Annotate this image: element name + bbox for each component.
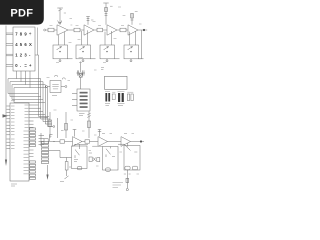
svg-text:0: 0 <box>15 63 18 68</box>
op-amp U2B <box>128 25 138 35</box>
battery B1 stack <box>39 133 45 146</box>
wire: left loop L2 <box>10 82 41 97</box>
svg-text:1: 1 <box>15 53 18 58</box>
svg-text:3: 3 <box>24 53 27 58</box>
capacitor C6 <box>112 94 115 100</box>
op-amp U1A <box>57 25 68 35</box>
diode D1 <box>89 157 92 161</box>
capacitor C7 cluster <box>118 91 125 93</box>
wire <box>126 29 128 31</box>
PDF badge <box>0 0 44 25</box>
svg-text:X: X <box>29 42 32 47</box>
wire: left loop L1 <box>8 79 39 94</box>
svg-text:7: 7 <box>15 31 18 36</box>
wire: keypad column net N5 <box>30 71 53 127</box>
resistor R1 <box>48 28 54 32</box>
wire: stage3 drops <box>105 31 112 45</box>
trimmer box P2 <box>76 45 91 59</box>
wire <box>46 29 48 31</box>
display module DS1 <box>105 76 128 89</box>
wire: terminal drop arrow <box>47 165 49 175</box>
wire: mid vertical <box>57 118 59 138</box>
svg-text:8: 8 <box>20 31 23 36</box>
keypad keys row 4 <box>15 63 32 68</box>
svg-text:5: 5 <box>20 42 23 47</box>
wire: K3 drop <box>126 170 128 188</box>
relay box K2 <box>103 147 119 171</box>
IC U5 left pin labels <box>11 106 15 149</box>
wire <box>82 141 85 143</box>
wire: keypad right bus N1 <box>35 55 49 117</box>
wire: left bus row ticks to keypad <box>6 33 13 66</box>
keypad keys row 3 <box>15 53 31 58</box>
wire <box>138 29 144 31</box>
relay box K3 <box>124 146 140 171</box>
wire: output feedback drop <box>139 30 142 59</box>
resistor R6 <box>65 112 67 138</box>
IC U5 label top <box>11 100 15 102</box>
IC U5 right pins middle stubs <box>29 150 34 157</box>
label: scattered value texts <box>47 22 140 175</box>
node: left bus arrow end <box>5 160 7 167</box>
node: output termination <box>143 29 145 31</box>
wire: stage4 drops <box>130 31 136 45</box>
node: fan end connector <box>53 126 55 128</box>
svg-text:-: - <box>29 53 31 58</box>
op-amp U4A <box>121 137 131 147</box>
svg-text:+: + <box>29 63 32 68</box>
keypad KP1 outline <box>13 27 35 71</box>
connector J1 input <box>44 29 46 31</box>
wire <box>117 29 120 31</box>
resistor R7 <box>88 112 90 139</box>
trimmer box P4 <box>124 45 139 59</box>
svg-text:÷: ÷ <box>29 31 32 36</box>
power rail riser VR4 <box>131 14 133 25</box>
trimmer box P1 <box>53 45 68 59</box>
connector: IC right pin terminals lower group <box>30 161 36 180</box>
wire <box>54 29 57 31</box>
wire: left loop L3 <box>12 85 43 100</box>
resistor R4 <box>120 28 126 32</box>
resistor R8 <box>44 139 48 144</box>
wire <box>131 141 141 143</box>
connector: IC right pin terminals upper group <box>30 128 36 147</box>
op-amp U3A <box>73 137 83 147</box>
IC U5 body <box>10 103 29 181</box>
resistor R9 <box>60 140 65 143</box>
svg-text:PDF: PDF <box>10 7 33 19</box>
wire <box>65 141 73 143</box>
connector J2 strip <box>42 141 49 163</box>
capacitor C8 <box>127 94 129 101</box>
keypad keys row 2 <box>15 42 32 47</box>
power rail riser VR1 <box>59 8 61 25</box>
wire <box>90 141 99 143</box>
wire: J2 top bend <box>50 135 53 142</box>
wire: keypad column net N2 <box>17 71 51 119</box>
power rail riser VR2 <box>87 17 89 25</box>
resistor R10 <box>85 140 90 143</box>
op-amp U2A <box>107 25 117 35</box>
wire: stage1 drops <box>59 32 65 45</box>
svg-text:=: = <box>24 63 27 68</box>
wire <box>48 141 60 143</box>
wire <box>108 141 122 143</box>
relay box K1 <box>74 144 88 146</box>
crystal Y1 <box>80 62 82 73</box>
wire <box>94 29 97 31</box>
svg-text:4: 4 <box>15 42 18 47</box>
wire: stage2 drops <box>82 30 88 45</box>
wire: left bus vertical <box>5 26 7 161</box>
wire: terminal to relay routing <box>49 151 72 158</box>
resistor network RN1 <box>77 89 90 111</box>
IC U5 right pins upper stubs <box>29 105 48 127</box>
capacitor C5 cluster <box>105 91 110 93</box>
resistor R2 <box>74 28 80 32</box>
svg-text:2: 2 <box>20 53 23 58</box>
label: top small texts <box>70 7 142 25</box>
wire: keypad column net N3 <box>21 71 51 122</box>
svg-text:.: . <box>20 63 21 68</box>
resistor R3 <box>97 28 103 32</box>
resistor R11 <box>66 158 68 162</box>
wire: keypad column net N4 <box>26 71 53 124</box>
oscillator module X1 <box>44 86 46 88</box>
op-amp U1B <box>84 25 94 35</box>
resistor R5 <box>49 112 51 138</box>
wire <box>68 29 74 31</box>
diode D2 <box>97 158 100 162</box>
IC U5 label bottom <box>11 184 17 186</box>
IC U5 left pins <box>7 106 11 149</box>
wire <box>103 29 108 31</box>
op-amp U3B <box>98 137 108 147</box>
label: caption block <box>113 183 124 188</box>
node: output termination 2 <box>140 140 142 142</box>
svg-text:6: 6 <box>24 42 27 47</box>
IC U5 right pin labels <box>24 105 29 174</box>
node: input diamond arrow <box>3 114 9 117</box>
keypad keys row 1 <box>15 31 32 36</box>
wire <box>80 29 84 31</box>
trimmer box P3 <box>100 45 115 59</box>
wire: left loop L4 <box>14 88 45 103</box>
svg-text:9: 9 <box>24 31 27 36</box>
power rail riser VR3 <box>105 3 107 25</box>
